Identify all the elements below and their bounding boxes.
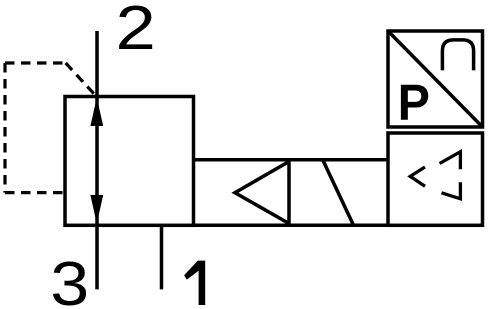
middle section divider (287, 160, 291, 226)
dashed pilot line diagonal (66, 63, 96, 96)
middle section bottom wire (194, 224, 389, 228)
dashed flow triangle: bottom-right corner (442, 182, 461, 199)
pilot box U1 (P with diagonal) (388, 31, 483, 127)
svg-text:2: 2 (116, 0, 156, 63)
flow triangle in middle section (235, 162, 289, 224)
middle section top wire (194, 158, 389, 162)
svg-text:3: 3 (50, 249, 89, 309)
dashed flow triangle: top-right corner (440, 152, 461, 170)
diagonal of pilot box (388, 31, 483, 127)
svg-text:P: P (398, 74, 430, 131)
valve body box (65, 97, 194, 226)
dashed pilot line top horizontal (5, 61, 66, 64)
port 3 line (95, 225, 99, 289)
dashed pilot line bottom horizontal (5, 191, 64, 194)
flow control box (dashed triangle) (388, 133, 483, 225)
port 2 line (95, 31, 99, 98)
port 1 line (160, 225, 164, 289)
up arrowhead (90, 98, 103, 127)
dashed flow triangle: left apex (410, 167, 425, 186)
label 1 (184, 261, 205, 305)
throttle diagonal in middle section (323, 160, 354, 225)
wire: arrow shaft through valve body (95, 98, 99, 225)
arch symbol (442, 40, 473, 71)
down arrowhead (90, 195, 103, 224)
dashed pilot line left vertical (3, 63, 6, 193)
